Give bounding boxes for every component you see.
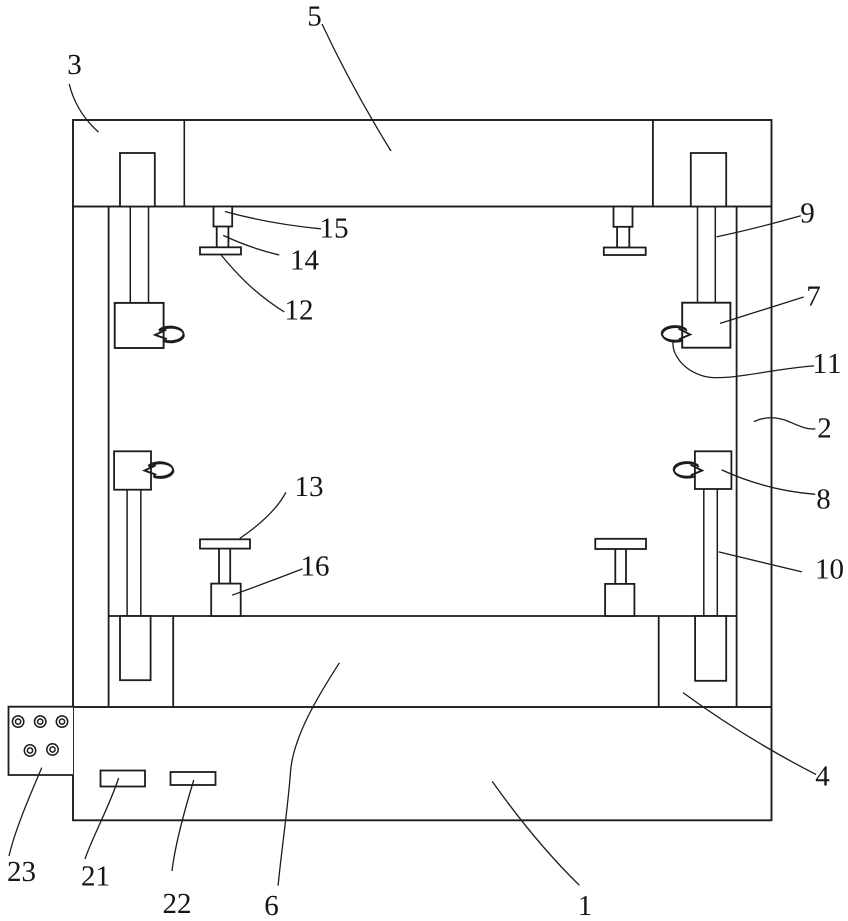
motor top-right: [691, 153, 726, 207]
bottom base 1: [73, 707, 772, 820]
label 15: [322, 218, 347, 237]
right rail 2 inner edge: [736, 207, 738, 708]
leader line 7: [720, 297, 804, 323]
top beam 5: [73, 120, 772, 207]
label 12: [287, 300, 312, 319]
bolt stem 14: [216, 227, 218, 248]
bolt flange plate 12: [200, 247, 241, 254]
label 7: [808, 287, 820, 306]
label 8: [817, 489, 829, 509]
right bolt block: [614, 207, 633, 227]
leader line 6: [278, 663, 339, 886]
motor top-left: [120, 153, 155, 207]
label 16: [303, 556, 329, 576]
top beam left corner divider 3: [183, 120, 185, 207]
label 2: [819, 418, 831, 437]
slider block 12: [115, 303, 164, 348]
label 11: [815, 354, 840, 373]
lead screw rods 9: [697, 207, 699, 303]
slider block 7: [682, 303, 730, 348]
lead screw rods top-left: [129, 207, 131, 303]
rotation arrow 11 at block 7: [662, 326, 690, 342]
leader line 23: [9, 768, 42, 856]
label 21: [82, 866, 108, 885]
mounting plate 23: [9, 707, 74, 775]
rotation arrow at block 8: [674, 462, 702, 478]
label 22: [164, 894, 190, 913]
leader line 13: [240, 492, 286, 538]
leader line 4: [683, 693, 816, 775]
leader line 1: [492, 781, 579, 885]
motor bottom-left: [120, 616, 151, 680]
inner platform left corner divider: [172, 616, 174, 707]
rotation arrow at block 12: [155, 327, 184, 343]
leader line 14: [223, 235, 279, 255]
rods mid-left: [126, 490, 128, 616]
right support plate: [595, 539, 646, 549]
leader line 15: [225, 212, 321, 229]
leader line 12: [221, 255, 285, 313]
leader line 16: [232, 569, 302, 595]
bolt block 15: [214, 207, 233, 227]
support block 16: [211, 584, 241, 616]
slot 22: [171, 772, 216, 785]
inner platform right corner divider 4: [658, 616, 660, 707]
label 5: [309, 7, 321, 26]
leader line 21: [85, 778, 119, 859]
clamp block mid-left: [114, 451, 151, 489]
leader line 11: [673, 340, 814, 378]
right bolt flange plate: [604, 248, 646, 256]
slot 21: [101, 771, 146, 787]
label 6: [266, 896, 278, 916]
clamp block 8: [695, 451, 732, 489]
leader line 10: [719, 552, 802, 572]
inner platform 6 top line: [109, 615, 737, 617]
support plate 13: [200, 539, 250, 548]
label 3: [69, 55, 81, 75]
rods 10: [703, 489, 705, 616]
bolt circles 23: [12, 716, 67, 756]
leader line 8: [722, 470, 816, 494]
top beam right corner divider: [652, 120, 654, 207]
right support stem: [614, 549, 616, 584]
leader line 9: [717, 216, 801, 237]
label 10: [818, 559, 843, 579]
rotation arrow at mid-left block: [145, 462, 174, 478]
left rail inner edge: [108, 207, 110, 708]
left rail outer edge: [72, 207, 74, 708]
label 23: [8, 862, 35, 882]
label 13: [297, 477, 322, 497]
label 9: [801, 203, 813, 223]
leader line 5: [322, 24, 391, 151]
label 1: [580, 896, 590, 915]
motor bottom-right: [695, 616, 726, 681]
leader line 2: [754, 418, 816, 429]
support stem left: [218, 549, 220, 584]
right bolt stem: [616, 227, 618, 248]
label 14: [293, 250, 319, 269]
right rail 2 outer edge: [771, 207, 773, 708]
leader line 3: [69, 84, 98, 132]
label 4: [816, 766, 830, 785]
right support block: [605, 584, 634, 616]
leader line 22: [172, 780, 194, 871]
